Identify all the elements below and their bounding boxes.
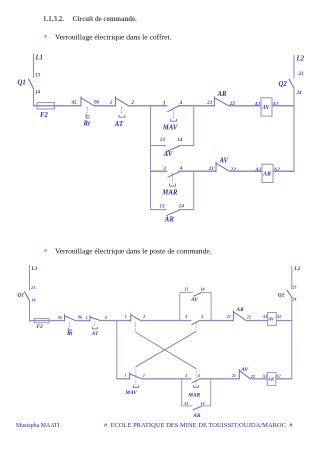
svg-text:2: 2 bbox=[104, 315, 107, 320]
svg-text:# ECOLE PRATIQUE DES MINE DE: # ECOLE PRATIQUE DES MINE DE TOUISSIT/OU… bbox=[104, 422, 293, 429]
svg-text:4: 4 bbox=[200, 314, 203, 319]
svg-text:AV: AV bbox=[190, 297, 198, 303]
svg-text:AV: AV bbox=[267, 316, 275, 321]
svg-text:Verrouillage électrique dans l: Verrouillage électrique dans le coffret. bbox=[55, 33, 172, 42]
svg-text:3: 3 bbox=[162, 166, 166, 172]
svg-text:95: 95 bbox=[72, 100, 78, 106]
svg-text:13: 13 bbox=[160, 203, 166, 209]
svg-text:4: 4 bbox=[197, 373, 200, 378]
svg-text:14: 14 bbox=[201, 401, 205, 406]
svg-text:AR: AR bbox=[164, 217, 175, 224]
svg-text:13: 13 bbox=[31, 285, 35, 290]
svg-text:A2: A2 bbox=[275, 373, 281, 378]
svg-text:Q1: Q1 bbox=[18, 80, 26, 87]
svg-text:1: 1 bbox=[86, 315, 88, 320]
svg-text:A1: A1 bbox=[262, 314, 268, 319]
svg-text:13: 13 bbox=[35, 73, 41, 79]
svg-text:22: 22 bbox=[246, 314, 251, 319]
svg-text:21: 21 bbox=[206, 100, 213, 106]
svg-text:A1: A1 bbox=[254, 167, 261, 173]
svg-text:Rt: Rt bbox=[83, 121, 92, 128]
svg-text:AT: AT bbox=[91, 331, 99, 337]
svg-text:F2: F2 bbox=[37, 324, 44, 330]
svg-text:Mustapha MAATI: Mustapha MAATI bbox=[16, 423, 59, 429]
svg-text:14: 14 bbox=[35, 90, 41, 96]
svg-text:Q1: Q1 bbox=[18, 293, 25, 299]
svg-text:A1: A1 bbox=[261, 373, 267, 378]
svg-text:AV: AV bbox=[163, 151, 173, 158]
svg-text:Verrouillage électrique dans l: Verrouillage électrique dans le poste de… bbox=[55, 247, 212, 256]
svg-text:1: 1 bbox=[124, 372, 126, 377]
svg-text:AR: AR bbox=[262, 172, 271, 178]
svg-text:Rt: Rt bbox=[66, 331, 73, 337]
svg-text:3: 3 bbox=[184, 373, 187, 378]
svg-text:F2: F2 bbox=[40, 112, 49, 119]
svg-text:L1: L1 bbox=[35, 55, 44, 62]
svg-text:L2: L2 bbox=[296, 56, 305, 63]
svg-text:L1: L1 bbox=[31, 266, 38, 272]
svg-text:13: 13 bbox=[184, 401, 188, 406]
svg-text:96: 96 bbox=[94, 100, 100, 106]
svg-text:13: 13 bbox=[160, 137, 166, 143]
svg-text:14: 14 bbox=[201, 287, 205, 292]
svg-text:AV: AV bbox=[219, 157, 229, 164]
svg-text:24: 24 bbox=[296, 90, 303, 96]
svg-text:A2: A2 bbox=[276, 314, 282, 319]
svg-text:3: 3 bbox=[184, 314, 187, 319]
svg-text:AR: AR bbox=[192, 413, 201, 419]
svg-text:AV: AV bbox=[261, 105, 271, 111]
svg-text:23: 23 bbox=[291, 284, 296, 289]
svg-text:21: 21 bbox=[231, 373, 236, 378]
svg-text:21: 21 bbox=[208, 166, 215, 172]
svg-text:AR: AR bbox=[267, 376, 274, 381]
svg-text:2: 2 bbox=[142, 373, 145, 378]
svg-text:MAR: MAR bbox=[187, 393, 200, 399]
svg-text:MAV: MAV bbox=[124, 390, 137, 396]
svg-text:1: 1 bbox=[125, 314, 127, 319]
svg-text:Q2: Q2 bbox=[279, 81, 288, 88]
svg-text:AT: AT bbox=[114, 121, 124, 128]
svg-text:1: 1 bbox=[110, 100, 113, 106]
svg-text:MAR: MAR bbox=[161, 190, 178, 197]
svg-text:AR: AR bbox=[236, 307, 245, 313]
svg-text:2: 2 bbox=[142, 314, 145, 319]
svg-text:L2: L2 bbox=[293, 266, 300, 272]
svg-text:Q2: Q2 bbox=[278, 292, 285, 298]
svg-text:14: 14 bbox=[177, 137, 183, 143]
svg-text:13: 13 bbox=[184, 287, 188, 292]
svg-text:14: 14 bbox=[32, 298, 36, 303]
svg-text:A1: A1 bbox=[254, 101, 261, 107]
svg-text:21: 21 bbox=[226, 314, 231, 319]
svg-text:96: 96 bbox=[78, 315, 83, 320]
svg-text:95: 95 bbox=[58, 315, 62, 320]
svg-text:23: 23 bbox=[298, 71, 305, 77]
svg-text:14: 14 bbox=[179, 203, 185, 209]
svg-text:3: 3 bbox=[162, 101, 166, 107]
svg-text:1.1.3.2.Circuit de commande.: 1.1.3.2.Circuit de commande. bbox=[43, 15, 137, 23]
svg-text:AR: AR bbox=[217, 91, 228, 98]
svg-text:MAV: MAV bbox=[162, 124, 178, 131]
